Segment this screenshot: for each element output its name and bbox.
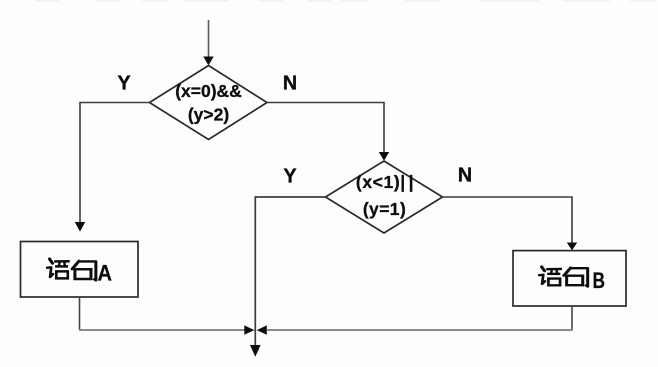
junction arrowhead from A (pointing right) <box>244 325 254 334</box>
wire: D1 Y-branch to box A <box>80 103 150 223</box>
svg-text:N: N <box>458 165 472 187</box>
label 语句A : 句 <box>72 261 96 280</box>
decision diamond D2 (x<1)||(y=1) <box>326 161 443 233</box>
svg-text:(x<1)||: (x<1)|| <box>356 172 414 192</box>
wire: merge rail from A <box>79 329 245 331</box>
wire: box A drop to merge rail <box>79 297 81 330</box>
wire: D2 N-branch to box B <box>443 197 573 243</box>
label 语句B : 句 <box>564 268 588 287</box>
arrowhead into D2 <box>379 152 389 161</box>
svg-text:(y>2): (y>2) <box>188 105 229 125</box>
wire: merge rail from B <box>267 329 573 331</box>
process box A <box>21 242 139 298</box>
svg-text:(x=0)&&: (x=0)&& <box>175 81 242 101</box>
wire: box B drop to merge rail <box>571 306 573 330</box>
process box B <box>513 251 626 306</box>
svg-text:Y: Y <box>117 73 131 95</box>
junction arrowhead from B (pointing left) <box>257 325 267 334</box>
arrowhead into box B <box>567 243 577 251</box>
label 语句B : 语 <box>539 267 562 285</box>
label 语句A : 语 <box>47 259 70 278</box>
svg-text:N: N <box>283 73 297 95</box>
decision diamond D1 (x=0)&&(y>2) <box>150 66 268 140</box>
svg-text:Y: Y <box>283 166 297 188</box>
arrowhead into box A <box>75 222 85 232</box>
wire: D2 Y-branch down through merge point <box>255 197 325 346</box>
wire: entry arrow into diamond 1 <box>208 20 210 57</box>
exit arrowhead below merge point <box>250 345 261 357</box>
cropped text remnants (top edge) <box>35 0 656 2</box>
svg-text:B: B <box>592 268 605 293</box>
svg-text:(y=1): (y=1) <box>363 199 406 219</box>
svg-text:A: A <box>97 260 112 285</box>
wire: D1 N-branch to diamond 2 <box>267 103 384 153</box>
arrowhead into D1 <box>203 57 213 66</box>
